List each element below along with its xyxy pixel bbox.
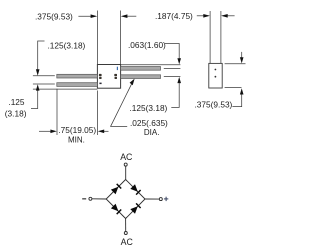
side dim arrow stub top xyxy=(241,52,243,59)
seating line xyxy=(33,88,98,90)
arrowhead side dim up xyxy=(240,88,244,94)
lead L3 (right upper) xyxy=(121,67,161,71)
diode D3 (bottom to right) xyxy=(130,206,138,214)
terminal circle bottom xyxy=(124,232,127,235)
svg-text:(3.18): (3.18) xyxy=(5,108,27,118)
package body U1 (front view) xyxy=(97,65,120,89)
tick lead1 centerline xyxy=(33,75,55,77)
wire diamond edge UR xyxy=(126,180,145,200)
side view lead dot 1 xyxy=(215,69,217,71)
side view lead dot 2 xyxy=(215,76,217,78)
leader .375 right bracket xyxy=(232,94,241,107)
ext line .75 left xyxy=(56,89,58,135)
arrowhead .187 left xyxy=(203,14,210,18)
arrowhead .125 center up xyxy=(177,77,181,83)
side view extension top xyxy=(225,63,246,65)
svg-text:.063(1.60): .063(1.60) xyxy=(128,40,166,50)
leader .125 top-left bracket xyxy=(38,41,45,71)
svg-text:.125(3.18): .125(3.18) xyxy=(48,40,86,50)
dim .75 left arrow tail xyxy=(39,130,52,132)
svg-text:.125(3.18): .125(3.18) xyxy=(130,103,168,113)
svg-text:.187(4.75): .187(4.75) xyxy=(155,11,193,21)
side lead line B xyxy=(220,11,222,63)
lead L2 (left lower) xyxy=(57,83,98,87)
svg-text:MIN.: MIN. xyxy=(68,136,85,145)
lead3 centerline extension xyxy=(164,67,181,69)
terminal circle left (negative) xyxy=(89,197,92,200)
svg-text:DIA.: DIA. xyxy=(144,128,160,137)
svg-text:.375(9.53): .375(9.53) xyxy=(195,99,233,109)
marking + (top right, blue) xyxy=(117,67,118,70)
marking - (bottom left) xyxy=(99,83,101,85)
side view body (right) xyxy=(209,63,222,88)
dim .187 right arrow tail xyxy=(223,15,235,17)
diode D1 (left to top) xyxy=(111,184,141,214)
arrowhead .187 right xyxy=(221,14,228,18)
dim .75 right arrow tail xyxy=(103,130,109,132)
lead L1 (left upper) xyxy=(57,74,98,78)
side lead line A xyxy=(209,11,211,63)
svg-text:.025(.635): .025(.635) xyxy=(130,118,168,128)
wire top xyxy=(125,166,127,179)
leader .025 dia xyxy=(111,81,134,127)
lead L4 (right lower) xyxy=(121,75,161,79)
arrowhead .025 leader xyxy=(130,79,135,86)
leader .063 bracket xyxy=(165,44,179,60)
leader .125 center bracket xyxy=(171,82,179,108)
svg-text:.75(19.05): .75(19.05) xyxy=(58,125,96,135)
lead4 centerline extension xyxy=(164,76,181,78)
body top edge extension right xyxy=(121,64,181,66)
marking ~ (right AC pin) xyxy=(114,74,117,79)
wire right xyxy=(145,198,159,200)
wire diamond edge UL xyxy=(106,180,125,200)
extension line body right edge (top dim) xyxy=(120,11,122,65)
arrowhead .125 bottom-left up xyxy=(36,84,40,90)
arrowhead .75 right xyxy=(98,130,104,134)
svg-text:AC: AC xyxy=(121,237,134,247)
svg-text:AC: AC xyxy=(120,152,133,162)
arrowhead side dim down xyxy=(240,57,244,63)
diode D2 (top to right) xyxy=(130,184,138,192)
leader .125 bottom-left bracket xyxy=(31,89,38,108)
arrowhead .063 down xyxy=(177,58,181,64)
svg-text:.125: .125 xyxy=(8,97,25,107)
svg-text:.375(9.53): .375(9.53) xyxy=(35,11,73,21)
arrowhead .375 top right xyxy=(121,14,128,18)
side view extension bottom xyxy=(225,87,242,89)
terminal circle right (positive) xyxy=(159,198,162,201)
terminal minus sign xyxy=(82,198,86,199)
arrowhead .375 top left xyxy=(91,14,98,18)
dim line .375 top left arrow xyxy=(78,15,95,17)
dim line .375 top right tail xyxy=(123,15,137,17)
marking ~ (left AC pin) xyxy=(99,74,102,79)
diode D4 (left to bottom) xyxy=(111,204,119,212)
terminal circle top xyxy=(124,163,127,166)
arrowhead .125 top-left down xyxy=(36,69,40,75)
terminal plus sign xyxy=(164,197,168,201)
extension line body left edge (top dim) xyxy=(96,11,98,65)
ext line .75 right xyxy=(97,91,99,136)
wire diamond edge LR xyxy=(126,199,145,219)
dim .187 left arrow tail xyxy=(197,15,209,17)
wire bottom xyxy=(125,219,127,232)
wire left xyxy=(92,198,106,200)
tick lead2 centerline xyxy=(33,83,55,85)
wire diamond edge LL xyxy=(106,199,125,219)
arrowhead .75 left xyxy=(50,130,56,134)
